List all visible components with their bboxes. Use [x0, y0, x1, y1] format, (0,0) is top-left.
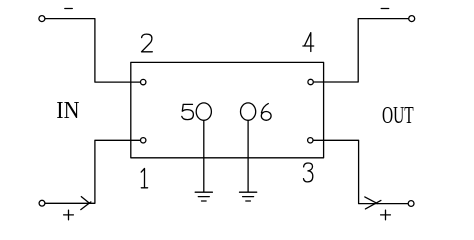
pin 4: [308, 79, 313, 84]
pin number 3: [304, 163, 313, 182]
pin number 5: [182, 104, 194, 119]
pin number 1: [141, 169, 147, 188]
input positive terminal: [39, 200, 45, 206]
ground (pin 5): [195, 192, 212, 201]
minus label (output): [381, 8, 389, 10]
pin number 6: [261, 104, 271, 121]
pin 5: [196, 103, 211, 120]
input arrowhead: [81, 197, 91, 210]
pin 3: [308, 138, 313, 143]
input negative terminal: [39, 16, 45, 22]
plus label (output): [381, 210, 391, 220]
output positive terminal: [408, 201, 414, 207]
pin 1: [141, 138, 146, 143]
wire input-positive terminal to pin 1: [45, 140, 140, 203]
wire pin 5 to ground: [203, 120, 205, 191]
pin number 4: [303, 33, 314, 52]
output negative terminal: [409, 16, 415, 22]
ground (pin 6): [240, 192, 257, 201]
wire output-negative terminal to pin 4: [313, 19, 408, 82]
wire pin 6 to ground: [247, 120, 249, 191]
pin 2: [141, 79, 146, 84]
pin 6: [241, 103, 256, 120]
module U1 body: [131, 62, 324, 157]
wire input-negative terminal to pin 2: [45, 19, 140, 83]
minus label (input): [65, 8, 73, 10]
svg-text:OUT: OUT: [382, 102, 414, 129]
plus label (input): [64, 210, 74, 220]
svg-text:IN: IN: [56, 97, 79, 124]
wire pin 3 to output-positive terminal: [313, 140, 408, 203]
output arrowhead: [365, 197, 381, 209]
pin number 2: [142, 34, 153, 52]
